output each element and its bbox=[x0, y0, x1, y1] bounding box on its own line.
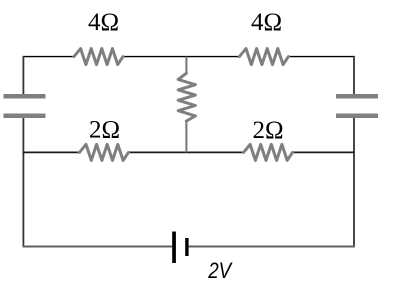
capacitor C2 right (top plate) bbox=[336, 94, 378, 99]
resistor R5 middle vertical bbox=[178, 73, 195, 121]
wire left vertical lower bbox=[22, 118, 24, 247]
svg-text:2V: 2V bbox=[207, 258, 233, 283]
wire middle-row right segment bbox=[292, 151, 355, 153]
resistor R4 2ohm middle-right bbox=[244, 144, 293, 160]
wire bottom-right segment bbox=[189, 246, 355, 248]
svg-text:4Ω: 4Ω bbox=[88, 9, 119, 36]
capacitor C1 left (top plate) bbox=[4, 94, 46, 99]
wire bottom-left segment bbox=[23, 246, 173, 248]
wire right vertical upper bbox=[353, 56, 355, 95]
wire middle-row center segment bbox=[128, 151, 244, 153]
capacitor C1 left (bottom plate) bbox=[4, 114, 46, 119]
wire middle-row left segment bbox=[23, 151, 80, 153]
svg-text:2Ω: 2Ω bbox=[89, 116, 120, 143]
wire middle branch lower lead bbox=[185, 121, 187, 153]
battery V1 long plate bbox=[172, 232, 176, 264]
battery V1 short plate bbox=[185, 238, 188, 256]
svg-text:2Ω: 2Ω bbox=[252, 117, 283, 144]
resistor R2 4ohm top-right bbox=[239, 49, 288, 65]
wire top-middle segment bbox=[123, 56, 240, 58]
resistor R1 4ohm top-left bbox=[74, 49, 123, 65]
wire top-right segment bbox=[288, 56, 355, 58]
wire top-left segment bbox=[23, 56, 74, 58]
capacitor C2 right (bottom plate) bbox=[336, 114, 378, 119]
wire middle branch upper lead bbox=[185, 57, 187, 74]
resistor R3 2ohm middle-left bbox=[79, 144, 128, 160]
svg-text:4Ω: 4Ω bbox=[251, 9, 282, 36]
wire left vertical upper bbox=[22, 56, 24, 94]
wire right vertical lower bbox=[353, 117, 355, 247]
